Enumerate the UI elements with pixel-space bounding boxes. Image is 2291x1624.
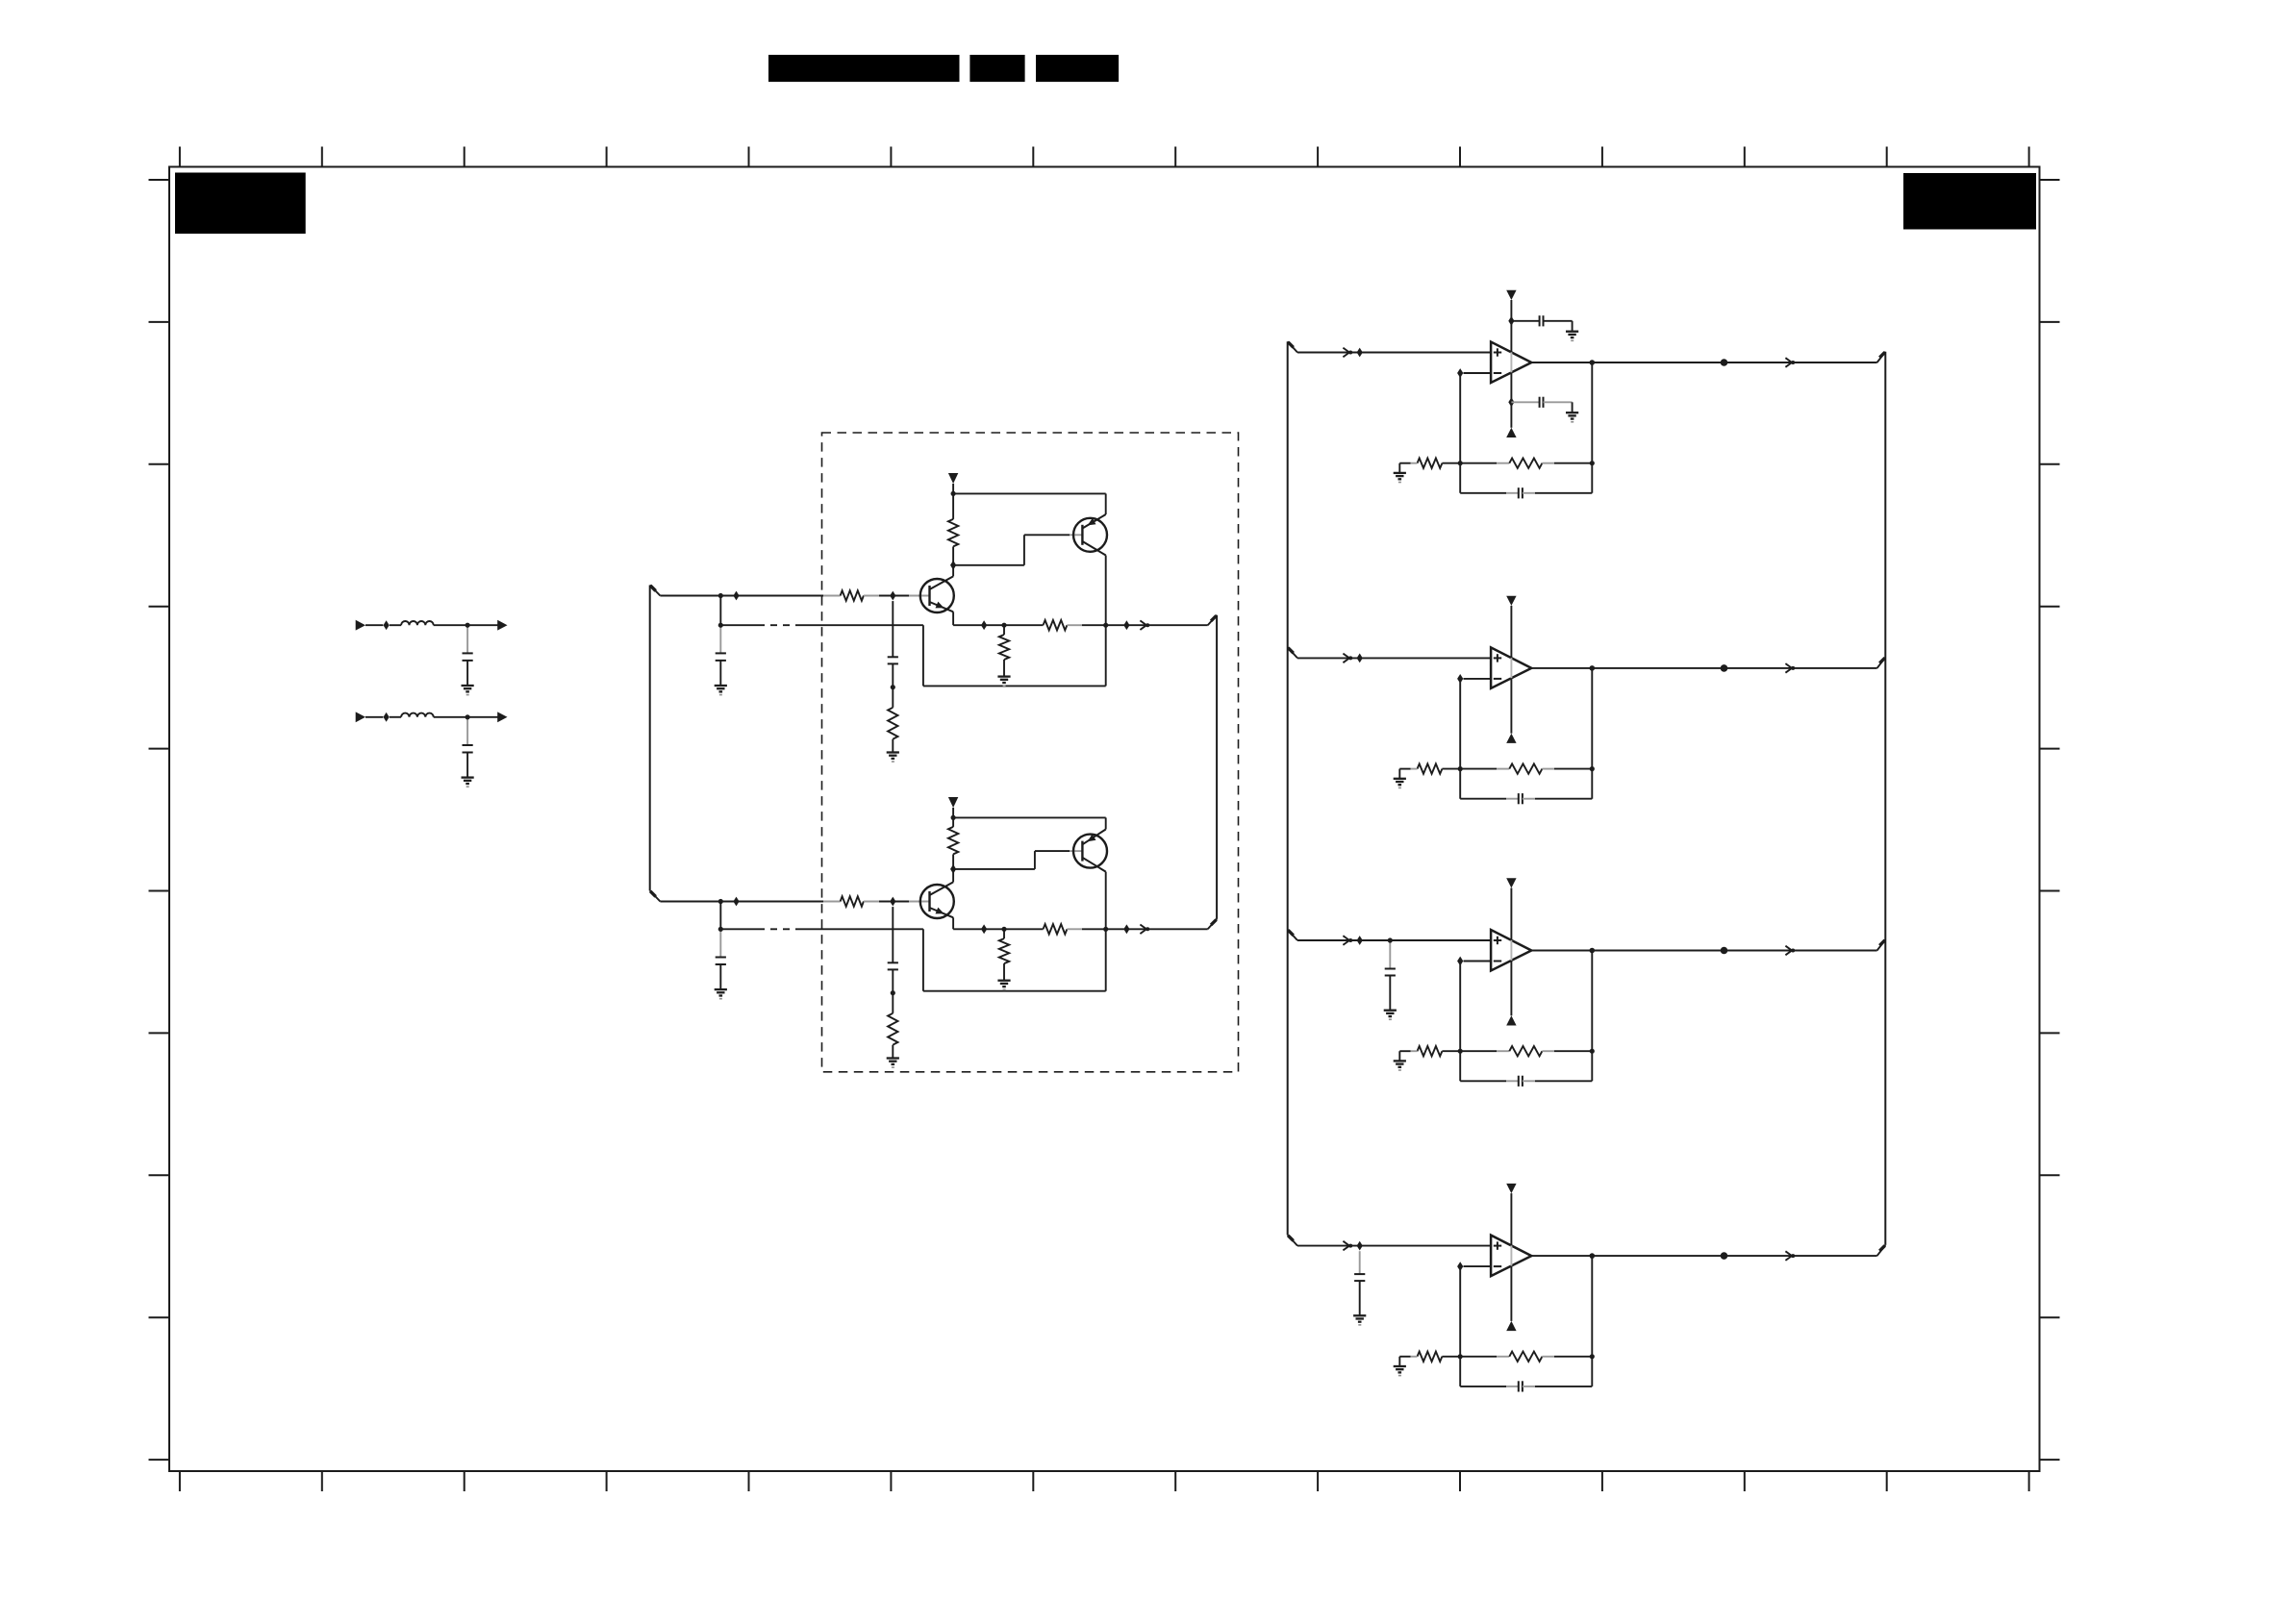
wire: [952, 484, 954, 493]
op-amp U4: [1491, 1236, 1531, 1277]
node U3c: [1590, 948, 1596, 954]
title block (redacted): [768, 55, 1119, 82]
arrow in U3: [1343, 936, 1349, 945]
resistor Rf3: [1460, 1050, 1497, 1052]
resistor Rg1: [1442, 462, 1460, 464]
node U1e: [1458, 461, 1463, 465]
ground: [462, 776, 474, 778]
left bus wire (driver section): [650, 586, 661, 902]
wire: [1398, 769, 1400, 779]
wire: [1003, 625, 1005, 635]
node A8: [981, 620, 987, 630]
node U3cap: [1388, 937, 1393, 942]
wire: [1510, 606, 1512, 658]
wire input row U1: [1297, 352, 1491, 354]
inductor L2: [401, 713, 434, 717]
node A9: [1001, 623, 1006, 628]
power arrow -V U2: [1506, 734, 1516, 743]
capacitor Cin3: [1385, 968, 1396, 970]
node U2d: [1721, 664, 1728, 672]
wire input row U3: [1297, 939, 1491, 941]
resistor RA4: [1044, 620, 1068, 630]
wire: [1003, 963, 1005, 981]
transistor QA2: [1073, 514, 1107, 556]
arrow out B: [1140, 925, 1146, 935]
border frame: [169, 167, 2040, 1472]
wire: [365, 716, 383, 718]
power arrow -V U1: [1506, 428, 1516, 437]
wire: [1464, 678, 1492, 680]
node U3a: [1357, 936, 1363, 945]
node B2: [733, 897, 739, 907]
node A11: [1123, 620, 1129, 630]
resistor RB1: [823, 901, 841, 903]
wire: [1389, 976, 1391, 1011]
wire bootstrap loop: [922, 929, 924, 990]
wire: [719, 661, 721, 686]
wire: [952, 808, 954, 817]
wire: [892, 993, 894, 1013]
wire output row U1: [1531, 362, 1876, 363]
node U2a: [1357, 654, 1363, 663]
node 2B: [466, 714, 470, 719]
node B8: [981, 924, 987, 934]
wire: [1398, 1357, 1400, 1366]
arrow in U2: [1343, 654, 1349, 663]
ground: [1566, 331, 1578, 333]
wire: [719, 929, 721, 957]
wire output row B: [952, 917, 954, 929]
arrow out U4: [1785, 1251, 1792, 1261]
resistor Rf1: [1460, 462, 1497, 464]
node U2e: [1458, 766, 1463, 771]
wire input row U2: [1297, 657, 1491, 659]
node U3d: [1721, 947, 1728, 955]
arrow out U3: [1785, 946, 1792, 956]
wire: [953, 564, 1024, 566]
right bus wire (op-amp section): [1877, 352, 1886, 1256]
node U4c: [1590, 1253, 1596, 1259]
wire: [892, 1045, 894, 1059]
wire (dashed section): [720, 928, 758, 930]
node U1f: [1590, 461, 1595, 465]
wire: [719, 902, 721, 930]
wire: [1389, 940, 1391, 969]
wire: [1510, 1193, 1512, 1245]
capacitor Cf1: [1460, 492, 1506, 494]
ground: [997, 980, 1010, 982]
node B3: [890, 897, 895, 907]
wire: [466, 717, 468, 745]
node A4: [718, 623, 723, 628]
node A2: [733, 591, 739, 601]
wire output row U3: [1531, 950, 1876, 952]
wire: [952, 493, 954, 519]
right bus wire (driver section): [1208, 615, 1217, 930]
node U4f: [1590, 1354, 1595, 1359]
wire input row A: [660, 595, 823, 597]
node U2f: [1590, 766, 1595, 771]
node A1: [718, 593, 723, 598]
node B6: [950, 864, 956, 874]
wire: [892, 969, 894, 992]
wire input row U4: [1297, 1245, 1491, 1247]
resistor RB2: [888, 1013, 897, 1045]
ground: [997, 675, 1010, 677]
output connector arrow 2B: [497, 712, 507, 722]
wire: [1082, 928, 1208, 930]
node A3: [890, 591, 895, 601]
wire: [892, 601, 894, 657]
ground: [1566, 412, 1578, 413]
capacitor CA1: [716, 652, 726, 654]
node 2A: [384, 712, 390, 722]
wire: [952, 869, 954, 883]
wire: [1459, 962, 1461, 1082]
op-amp U3: [1491, 930, 1531, 971]
wire: [1459, 373, 1461, 493]
wire: [390, 624, 401, 626]
left bus wire (op-amp section): [1288, 341, 1297, 1245]
wire: [1398, 463, 1400, 473]
wire: [892, 687, 894, 708]
node 1B: [466, 623, 470, 628]
wire: [1510, 300, 1512, 352]
capacitor Cd1a: [1511, 320, 1539, 322]
capacitor CA2: [888, 656, 898, 658]
node B1: [718, 899, 723, 904]
node U1b: [1457, 368, 1463, 378]
wire: [1105, 556, 1107, 626]
resistor RB4: [1044, 924, 1068, 934]
wire: [1003, 929, 1005, 938]
ground: [1394, 1365, 1406, 1367]
capacitor Cf2: [1460, 798, 1506, 800]
power arrow +V U2: [1506, 596, 1516, 606]
power arrow +V U1: [1506, 290, 1516, 300]
wire: [952, 546, 954, 564]
resistor RA3: [948, 519, 958, 547]
inductor L1: [401, 621, 434, 625]
wire: [466, 661, 468, 686]
ground: [715, 685, 727, 687]
ground: [887, 1057, 899, 1059]
node A10: [1103, 623, 1108, 628]
arrow in U1: [1343, 348, 1349, 358]
wire: [719, 964, 721, 989]
capacitor Cf3: [1460, 1080, 1506, 1082]
input connector arrow 2A: [356, 712, 365, 722]
node B5: [891, 990, 895, 995]
transistor QA1: [920, 576, 954, 612]
ground: [715, 988, 727, 990]
wire: [953, 868, 1035, 870]
wire rail: [953, 816, 1106, 818]
node U3e: [1458, 1049, 1463, 1054]
power arrow +V U4: [1506, 1184, 1516, 1193]
wire: [1359, 1281, 1361, 1315]
ground: [887, 751, 899, 753]
node U1p1: [1508, 316, 1514, 326]
wire: [719, 596, 721, 626]
wire bootstrap loop: [922, 625, 924, 686]
node B7: [951, 815, 956, 820]
node U1c: [1590, 360, 1596, 365]
arrow out U1: [1785, 358, 1792, 367]
node A6: [950, 561, 956, 570]
node B10: [1103, 927, 1108, 932]
power arrow +V U3: [1506, 878, 1516, 887]
sheet label top-left (redacted): [175, 173, 306, 235]
node U3f: [1590, 1049, 1595, 1054]
wire input row B: [660, 901, 823, 903]
wire: [1105, 872, 1107, 930]
wire: [466, 753, 468, 778]
wire: [1459, 679, 1461, 799]
wire: [1464, 1265, 1492, 1267]
wire: [390, 716, 401, 718]
wire: [1082, 624, 1208, 626]
wire: [719, 625, 721, 653]
wire: [1464, 372, 1492, 374]
wire: [952, 817, 954, 827]
node U4e: [1458, 1354, 1463, 1359]
wire: [1510, 888, 1512, 940]
resistor RB3: [948, 827, 958, 855]
wire: [434, 716, 500, 718]
wire: [892, 739, 894, 753]
wire: [892, 663, 894, 687]
resistor RB5: [999, 938, 1009, 963]
node U1a: [1357, 348, 1363, 358]
node A5: [891, 685, 895, 689]
node U4b: [1457, 1262, 1463, 1271]
ground: [462, 685, 474, 687]
capacitor Cin4: [1354, 1273, 1365, 1275]
resistor Rg2: [1442, 768, 1460, 770]
capacitor Cd1b: [1511, 401, 1539, 403]
wire output row U2: [1531, 667, 1876, 669]
ground: [1353, 1314, 1366, 1316]
transistor QB2: [1073, 830, 1107, 872]
node B9: [1001, 927, 1006, 932]
wire: [952, 565, 954, 577]
node U4d: [1721, 1252, 1728, 1260]
op-amp U1: [1491, 342, 1531, 384]
wire: [1003, 660, 1005, 677]
wire: [1459, 1266, 1461, 1387]
resistor Rf2: [1460, 768, 1497, 770]
resistor Rg4: [1442, 1356, 1460, 1358]
node U2b: [1457, 674, 1463, 684]
node B11: [1123, 924, 1129, 934]
capacitor CB2: [888, 962, 898, 963]
node U2c: [1590, 665, 1596, 671]
ground: [1394, 778, 1406, 780]
node U4a: [1357, 1241, 1363, 1251]
wire: [466, 625, 468, 653]
node A7: [951, 491, 956, 496]
node 1A: [384, 620, 390, 630]
resistor RA1: [823, 595, 841, 597]
wire: [365, 624, 383, 626]
dashed enclosure box: [822, 433, 1239, 1072]
wire: [434, 624, 500, 626]
output connector arrow 1B: [497, 620, 507, 631]
node U1d: [1721, 359, 1728, 366]
power arrow +V B: [948, 797, 958, 808]
capacitor C1: [463, 652, 473, 654]
node U1p2: [1508, 397, 1514, 407]
capacitor CB1: [716, 957, 726, 959]
resistor Rg3: [1442, 1050, 1460, 1052]
wire: [952, 854, 954, 869]
resistor Rf4: [1460, 1356, 1497, 1358]
wire: [892, 907, 894, 962]
wire output row U4: [1531, 1255, 1876, 1257]
ground: [1394, 472, 1406, 474]
ground: [1394, 1060, 1406, 1062]
op-amp U2: [1491, 647, 1531, 688]
wire rail: [953, 492, 1106, 494]
arrow out A: [1140, 620, 1146, 630]
wire: [1464, 961, 1492, 962]
power arrow +V A: [948, 473, 958, 484]
arrow out U2: [1785, 663, 1792, 673]
capacitor Cf4: [1460, 1386, 1506, 1387]
arrow in U4: [1343, 1241, 1349, 1251]
input connector arrow 1A: [356, 620, 365, 631]
capacitor C2: [463, 744, 473, 746]
resistor RA2: [888, 708, 897, 739]
power arrow -V U4: [1506, 1321, 1516, 1331]
wire output row A: [952, 612, 954, 625]
resistor RA5: [999, 635, 1009, 660]
wire (dashed section): [720, 624, 758, 626]
power arrow -V U3: [1506, 1015, 1516, 1025]
wire: [1359, 1251, 1361, 1274]
transistor QB1: [920, 882, 954, 918]
node B4: [718, 927, 723, 932]
ground: [1384, 1010, 1397, 1012]
sheet label top-right (redacted): [1903, 173, 2036, 230]
wire: [1398, 1051, 1400, 1061]
node U3b: [1457, 957, 1463, 966]
